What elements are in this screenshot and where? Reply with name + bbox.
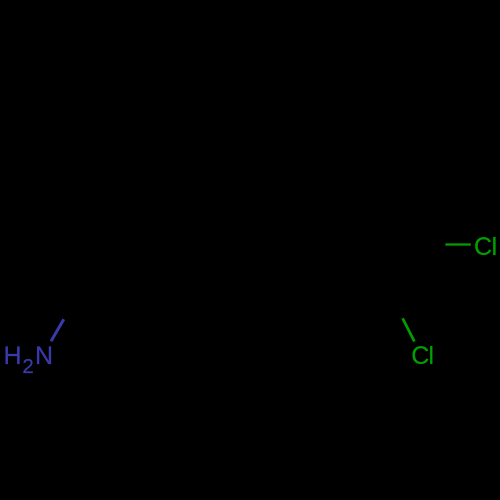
svg-text:Cl: Cl — [411, 342, 434, 370]
svg-text:Cl: Cl — [474, 233, 497, 261]
